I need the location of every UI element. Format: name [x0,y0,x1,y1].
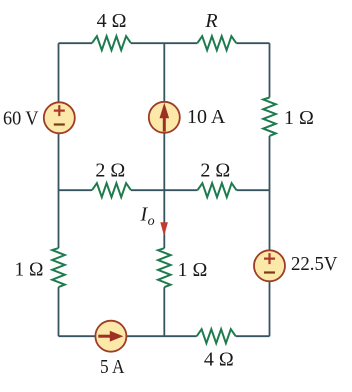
wire middle-center segment [131,189,198,191]
wire right branch lower [269,136,271,336]
wire top-middle segment [131,42,197,44]
svg-text:Io: Io [140,203,155,229]
resistor R top-right [197,36,236,50]
svg-text:1 Ω: 1 Ω [15,258,44,280]
voltage source V1 60V [44,102,75,133]
wire middle branch lower [163,287,165,336]
resistor 4ohm bottom [197,329,236,343]
wire middle branch upper [163,43,165,248]
resistor 1ohm middle branch [158,248,171,287]
voltage source V2 22.5V [254,250,285,281]
current arrow Io [160,222,168,236]
svg-text:1 Ω: 1 Ω [178,259,208,281]
svg-text:5 A: 5 A [100,356,125,378]
svg-text:R: R [204,10,217,32]
wire middle-right segment [237,189,270,191]
resistor 2ohm middle-right [198,183,237,197]
current source I1 10A [149,102,180,133]
wire bottom-right segment [236,335,270,337]
resistor 4ohm top-left [92,36,131,50]
wire left branch upper [58,43,60,248]
wire left branch lower [58,287,60,336]
svg-text:1 Ω: 1 Ω [284,107,314,129]
svg-text:4 Ω: 4 Ω [97,10,127,32]
svg-text:2 Ω: 2 Ω [200,160,230,182]
current source I2 5A [95,321,126,352]
wire bottom-left segment [59,335,197,337]
resistor 1ohm right branch [263,98,276,136]
svg-text:10 A: 10 A [187,106,226,128]
resistor 2ohm middle-left [92,183,131,197]
svg-text:60 V: 60 V [3,108,39,130]
wire middle-left segment [59,189,93,191]
svg-text:22.5V: 22.5V [291,253,338,275]
resistor 1ohm left branch [52,248,65,287]
svg-text:2 Ω: 2 Ω [95,160,125,182]
wire right branch upper [269,43,271,97]
wire top-right segment [236,42,269,44]
wire top-left segment [59,42,93,44]
svg-text:4 Ω: 4 Ω [204,349,234,371]
